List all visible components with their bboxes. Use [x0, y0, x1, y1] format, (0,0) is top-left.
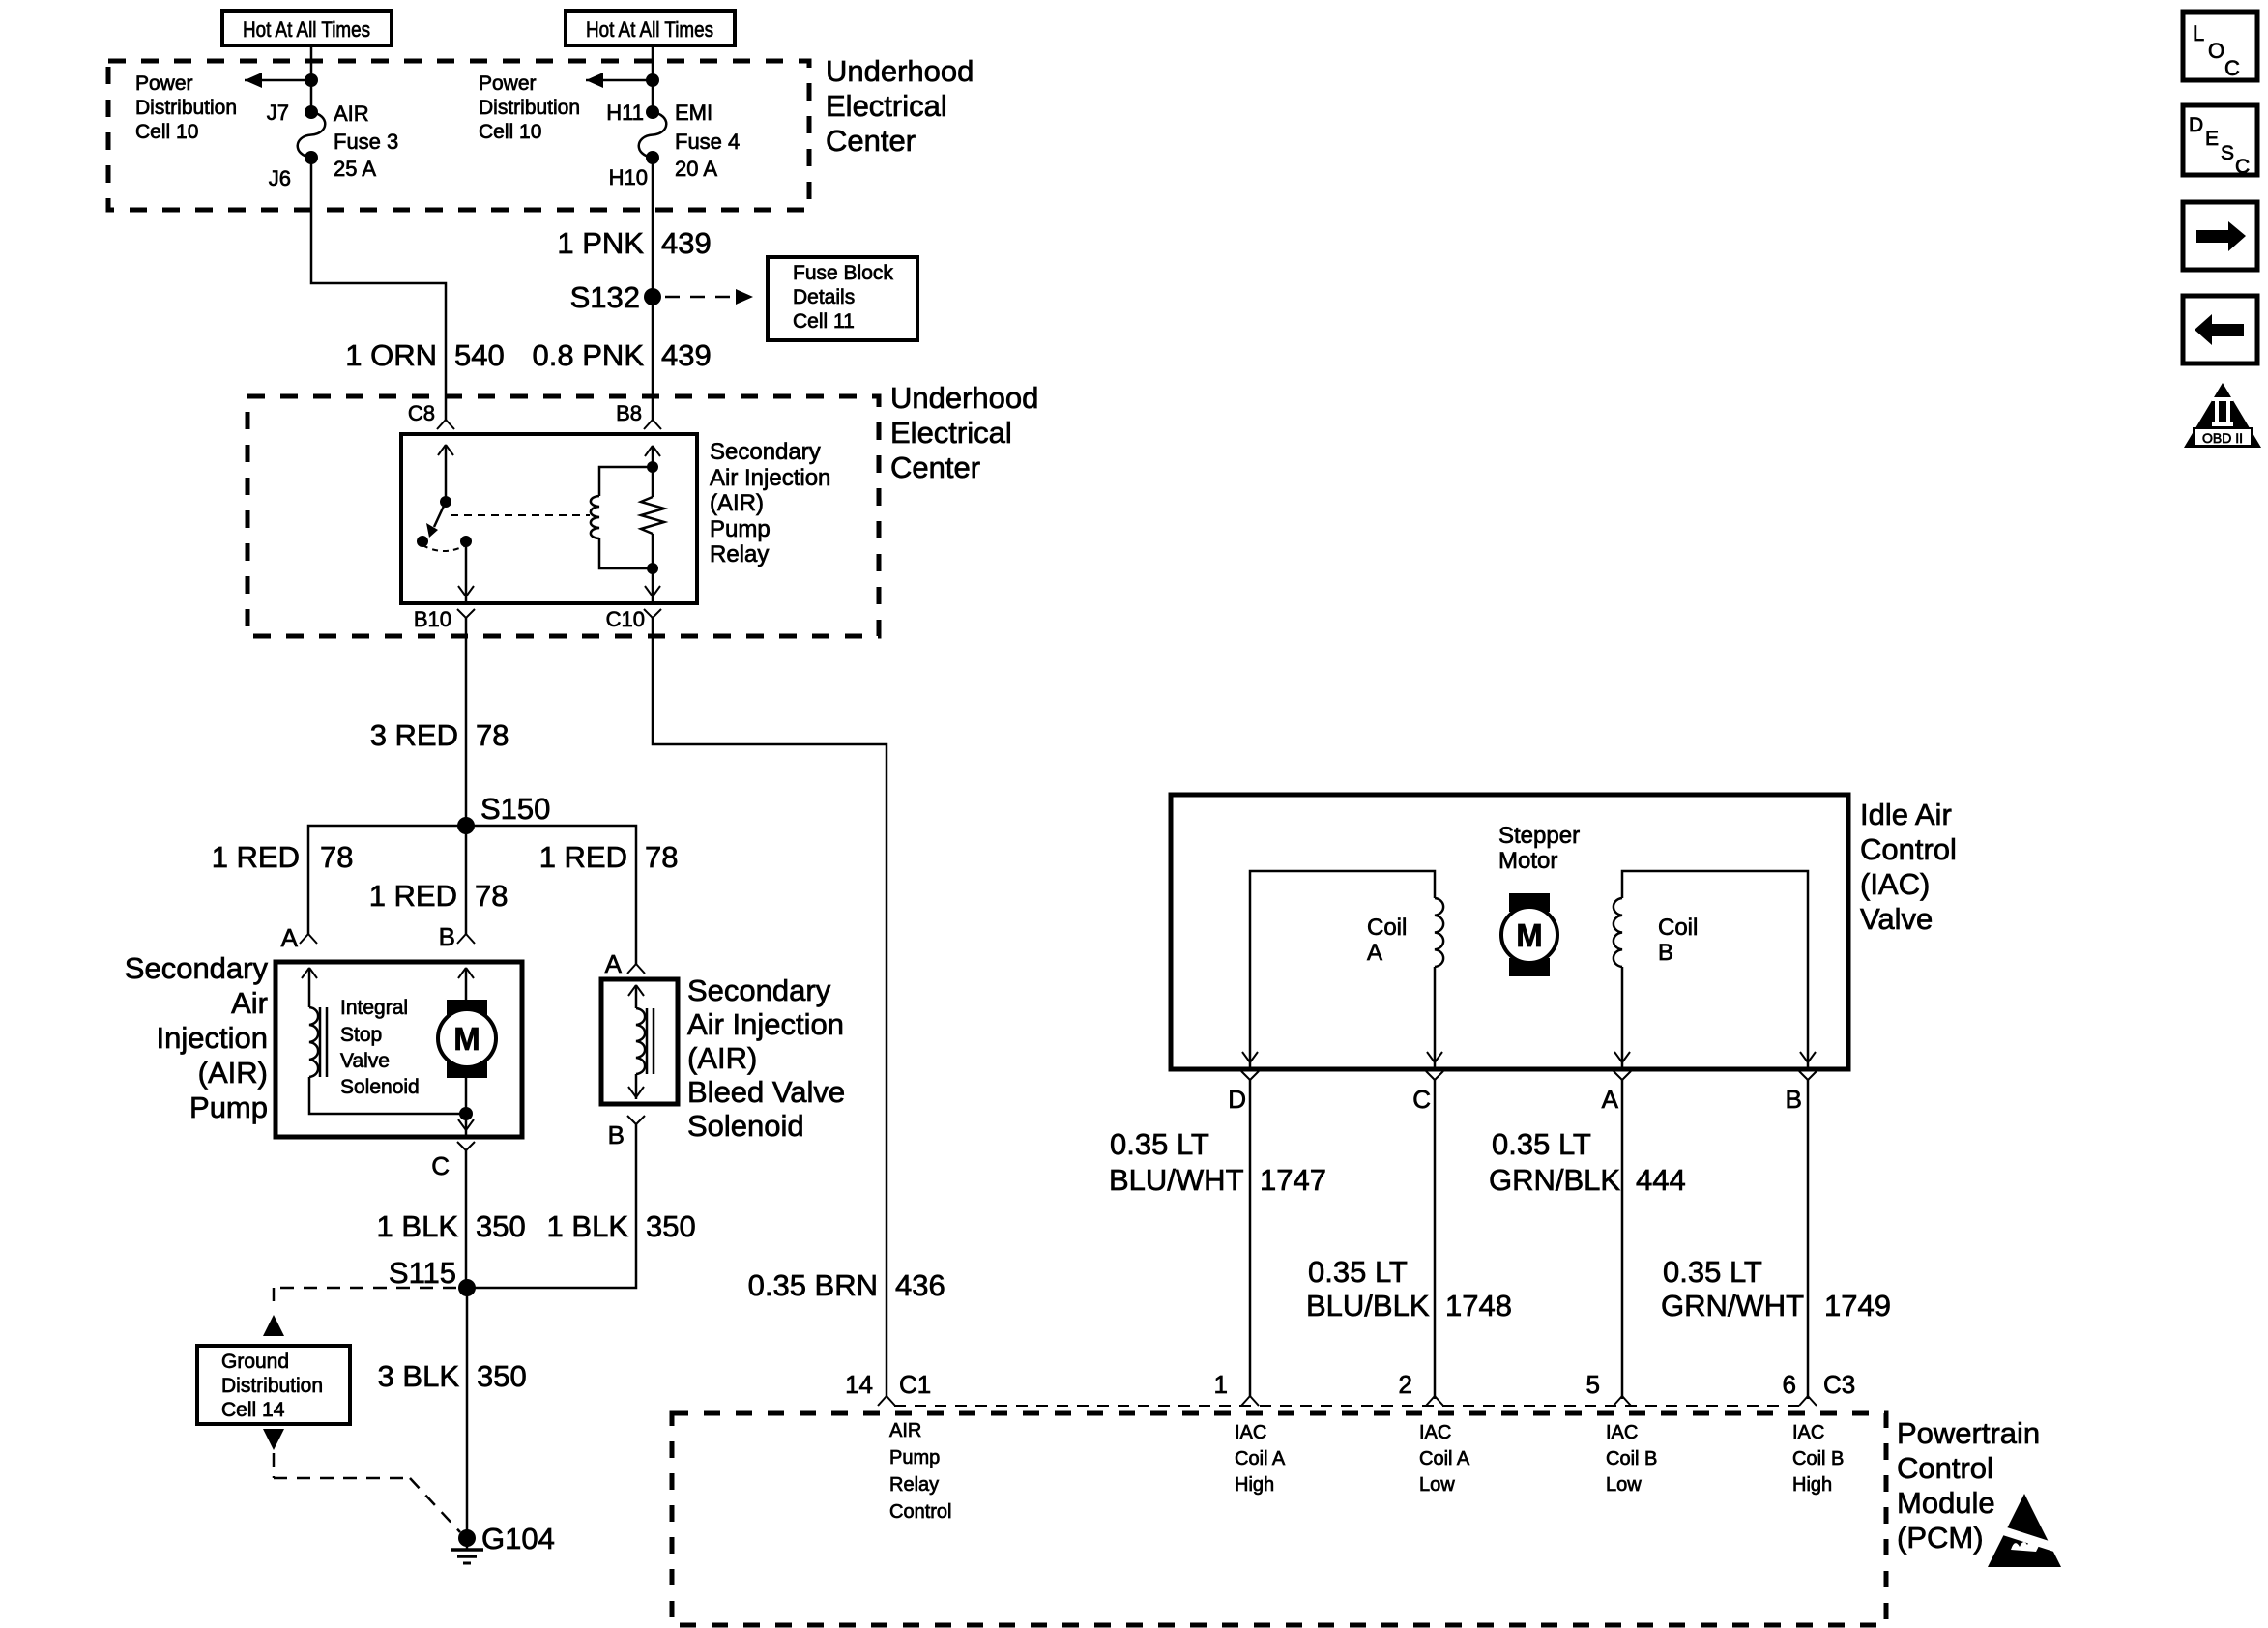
fuse F3 terminal J6: [305, 151, 318, 164]
terminal C10 connector: [606, 607, 661, 631]
label: wire 1 BLK 350 (left): [377, 1209, 526, 1243]
svg-text:G104: G104: [481, 1522, 555, 1555]
svg-text:Low: Low: [1419, 1474, 1455, 1496]
svg-text:S115: S115: [389, 1256, 456, 1290]
svg-text:Air: Air: [231, 986, 268, 1020]
svg-text:BLU/BLK: BLU/BLK: [1306, 1289, 1430, 1323]
bleed valve solenoid box: [601, 979, 678, 1104]
wire: motor to pump pin C: [465, 1078, 468, 1114]
svg-text:3 BLK: 3 BLK: [378, 1359, 460, 1393]
relay coil top junction: [647, 461, 658, 473]
label: wire 0.35 BRN 436: [748, 1268, 945, 1302]
pin 5 connector: [1586, 1370, 1631, 1406]
label: Integral Stop Valve Solenoid: [340, 997, 420, 1098]
pump motor leg from B: [458, 968, 474, 1000]
wire: pump C to S115 (1 BLK 350): [465, 1150, 468, 1288]
svg-text:GRN/BLK: GRN/BLK: [1489, 1163, 1620, 1197]
label: wire 3 RED 78: [370, 718, 509, 752]
wire: bleed B to S115 (1 BLK 350): [467, 1124, 636, 1288]
junction: pump internal ground node: [459, 1107, 473, 1120]
svg-text:C: C: [2224, 56, 2240, 80]
svg-text:540: 540: [454, 338, 505, 372]
svg-text:Idle Air: Idle Air: [1860, 798, 1952, 831]
label: Secondary Air Injection (AIR) Pump: [125, 951, 269, 1124]
dashed box: Underhood Electrical Center (fuse block): [108, 61, 809, 210]
svg-text:Underhood: Underhood: [890, 381, 1038, 415]
relay coil branch wire: [599, 467, 653, 568]
terminal B connector (pump): [439, 922, 475, 951]
svg-text:1 RED: 1 RED: [212, 840, 300, 874]
svg-text:439: 439: [661, 338, 712, 372]
svg-text:D: D: [2189, 114, 2203, 136]
svg-text:0.8 PNK: 0.8 PNK: [533, 338, 645, 372]
wire: junction to pump C: [458, 1114, 474, 1137]
pin label: IAC Coil B High: [1792, 1422, 1844, 1496]
label: wire 0.35 LT BLU/BLK 1748: [1306, 1255, 1512, 1323]
reference arrow up (ground distribution): [263, 1315, 284, 1336]
inductor: IAC Coil B: [1614, 898, 1622, 967]
svg-text:OBD II: OBD II: [2202, 430, 2243, 446]
label: Secondary Air Injection (AIR) Pump Relay: [710, 439, 830, 567]
pin label: IAC Coil B Low: [1606, 1422, 1657, 1496]
icon: back arrow: [2183, 296, 2257, 363]
label: Powertrain Control Module (PCM): [1897, 1416, 2040, 1555]
svg-text:IAC: IAC: [1792, 1422, 1824, 1443]
svg-text:78: 78: [476, 718, 509, 752]
relay resistor R1: [641, 446, 664, 568]
ground G104: [451, 1522, 555, 1563]
svg-text:350: 350: [476, 1209, 526, 1243]
svg-text:Fuse Block: Fuse Block: [793, 262, 893, 284]
svg-text:(AIR): (AIR): [710, 490, 764, 516]
svg-text:Center: Center: [826, 124, 916, 158]
wire: S115 to G104 (3 BLK 350): [466, 1288, 469, 1538]
svg-text:Center: Center: [890, 451, 980, 484]
svg-text:(AIR): (AIR): [687, 1041, 757, 1075]
wire: S150 to AIR pump pin A (1 RED 78): [308, 826, 466, 934]
svg-text:0.35 LT: 0.35 LT: [1308, 1255, 1408, 1289]
svg-text:0.35 BRN: 0.35 BRN: [748, 1268, 878, 1302]
IAC coil B loop wire: [1614, 871, 1816, 1069]
svg-text:Secondary: Secondary: [687, 974, 831, 1007]
svg-text:M: M: [453, 1021, 480, 1057]
bleed solenoid leg to B: [628, 1074, 644, 1099]
svg-text:EMI: EMI: [675, 101, 712, 125]
label: Underhood Electrical Center (top): [826, 54, 974, 158]
svg-text:1: 1: [1214, 1370, 1228, 1399]
svg-text:IAC: IAC: [1606, 1422, 1638, 1443]
svg-text:Solenoid: Solenoid: [687, 1109, 804, 1143]
svg-text:Power: Power: [479, 73, 537, 95]
svg-text:L: L: [2193, 21, 2204, 45]
connector box: Hot At All Times (left feed): [222, 11, 392, 45]
svg-text:1748: 1748: [1445, 1289, 1512, 1323]
relay coil L1: [591, 496, 599, 538]
svg-text:1749: 1749: [1824, 1289, 1891, 1323]
stepper motor M2: [1501, 893, 1557, 976]
icon: forward arrow: [2183, 202, 2257, 270]
svg-text:E: E: [2205, 128, 2219, 150]
label: terminal H10: [609, 165, 648, 189]
svg-text:1 RED: 1 RED: [539, 840, 627, 874]
label: wire 0.35 LT GRN/BLK 444: [1489, 1127, 1686, 1197]
svg-text:A: A: [1602, 1085, 1619, 1114]
label: Underhood Electrical Center (relay): [890, 381, 1038, 484]
svg-text:1 BLK: 1 BLK: [377, 1209, 459, 1243]
wire: IAC C to PCM pin 2 (0.35 LT BLU/BLK 1748): [1434, 1080, 1437, 1399]
label: Idle Air Control (IAC) Valve: [1860, 798, 1957, 936]
svg-text:A: A: [281, 923, 299, 952]
svg-text:Module: Module: [1897, 1486, 1995, 1520]
relay switch NC contact: [417, 536, 428, 547]
svg-text:S150: S150: [480, 792, 550, 826]
label: wire 1 RED 78 (middle): [369, 879, 509, 913]
svg-text:78: 78: [645, 840, 678, 874]
terminal C8 connector: [408, 401, 454, 429]
wire: fuse H10 to S132 (1 PNK 439): [652, 158, 654, 297]
wire: IAC D to PCM pin 1 (0.35 LT BLU/WHT 1747): [1249, 1080, 1252, 1396]
relay switch output leg to B10: [458, 541, 474, 603]
terminal A connector (IAC): [1602, 1071, 1631, 1114]
terminal B10 connector: [414, 607, 475, 631]
svg-text:H10: H10: [609, 165, 648, 189]
svg-text:Distribution: Distribution: [135, 97, 237, 119]
wire: IAC B to PCM pin 6 (0.35 LT GRN/WHT 1749): [1807, 1080, 1810, 1399]
svg-text:A: A: [605, 949, 623, 978]
svg-text:Motor: Motor: [1498, 848, 1557, 874]
label: terminal J7: [267, 101, 289, 125]
terminal C connector (IAC): [1412, 1071, 1443, 1114]
svg-text:78: 78: [475, 879, 508, 913]
fuse F4 terminal H11: [646, 105, 659, 119]
relay switch pivot: [440, 496, 451, 508]
svg-text:Stepper: Stepper: [1498, 823, 1580, 849]
wire: right feed into fuse block: [652, 45, 654, 112]
label: EMI Fuse 4 20 A: [675, 101, 740, 181]
fuse F3: AIR Fuse 3 25 A: [298, 112, 326, 158]
svg-text:25 A: 25 A: [334, 157, 376, 181]
svg-text:0.35 LT: 0.35 LT: [1492, 1127, 1591, 1161]
svg-text:Valve: Valve: [1860, 902, 1933, 936]
pin 2 connector: [1399, 1370, 1443, 1406]
svg-text:Secondary: Secondary: [125, 951, 269, 985]
reference arrow down (ground distribution): [263, 1429, 284, 1450]
svg-text:Cell 11: Cell 11: [793, 310, 855, 333]
reference box: Fuse Block Details Cell 11: [768, 257, 917, 340]
svg-text:Secondary: Secondary: [710, 439, 821, 465]
svg-text:350: 350: [477, 1359, 527, 1393]
svg-text:Ground: Ground: [221, 1351, 289, 1373]
label: terminal J6: [269, 166, 291, 190]
svg-text:IAC: IAC: [1235, 1422, 1266, 1443]
label: Stepper Motor: [1498, 823, 1580, 874]
svg-text:B8: B8: [616, 401, 642, 425]
svg-text:A: A: [1367, 940, 1382, 966]
IAC valve box: [1171, 795, 1848, 1069]
svg-text:Control: Control: [1860, 832, 1957, 866]
terminal B connector (bleed valve): [608, 1116, 645, 1149]
svg-text:(IAC): (IAC): [1860, 867, 1930, 901]
svg-text:AIR: AIR: [889, 1420, 921, 1441]
svg-text:D: D: [1228, 1085, 1246, 1114]
svg-text:C3: C3: [1823, 1370, 1855, 1399]
wire: S150 to AIR pump pin B (1 RED 78): [465, 826, 468, 934]
svg-text:B: B: [439, 922, 455, 951]
pin label: IAC Coil A High: [1235, 1422, 1286, 1496]
label: terminal H11: [606, 101, 644, 125]
svg-text:1 ORN: 1 ORN: [345, 338, 437, 372]
fuse F3 terminal J7: [305, 105, 318, 119]
relay switch throw arc (dashed): [422, 545, 466, 551]
svg-text:3 RED: 3 RED: [370, 718, 458, 752]
svg-text:Coil: Coil: [1367, 915, 1407, 941]
svg-text:20 A: 20 A: [675, 157, 717, 181]
svg-text:Coil A: Coil A: [1235, 1448, 1286, 1469]
svg-text:Relay: Relay: [889, 1474, 939, 1496]
splice S115: [389, 1256, 476, 1296]
relay coil leg to C10: [645, 568, 660, 603]
svg-text:High: High: [1792, 1474, 1832, 1496]
svg-text:Coil A: Coil A: [1419, 1448, 1470, 1469]
relay actuation link (dashed): [451, 514, 590, 516]
label: wire 0.8 PNK 439: [533, 338, 712, 372]
relay coil bottom junction: [647, 563, 658, 574]
PCM connector row (thin dashed): [894, 1405, 1800, 1407]
svg-text:Cell 10: Cell 10: [479, 121, 541, 143]
pin 1 connector: [1214, 1370, 1259, 1406]
pump solenoid leg from A: [302, 968, 317, 1007]
svg-text:Coil: Coil: [1658, 915, 1698, 941]
wire: IAC A to PCM pin 5 (0.35 LT GRN/BLK 444): [1621, 1080, 1624, 1399]
svg-text:1 PNK: 1 PNK: [557, 226, 644, 260]
pin label: AIR Pump Relay Control: [889, 1420, 951, 1523]
svg-text:GRN/WHT: GRN/WHT: [1661, 1289, 1804, 1323]
svg-text:2: 2: [1399, 1370, 1412, 1399]
AIR pump box: [276, 962, 522, 1137]
svg-text:Coil B: Coil B: [1606, 1448, 1657, 1469]
reference box: Ground Distribution Cell 14: [197, 1346, 350, 1424]
label: wire 1 ORN 540: [345, 338, 504, 372]
label: Coil B: [1658, 915, 1698, 966]
wire: relay B10 to S150 (3 RED 78): [465, 618, 468, 826]
terminal A connector (pump): [281, 923, 317, 952]
label: wire 0.35 LT BLU/WHT 1747: [1109, 1127, 1326, 1197]
svg-text:Cell 14: Cell 14: [221, 1399, 285, 1421]
bleed solenoid leg from A: [628, 985, 644, 1008]
svg-text:J7: J7: [267, 101, 289, 125]
svg-text:439: 439: [661, 226, 712, 260]
ESD sensitivity symbol: [1984, 1494, 2065, 1567]
svg-text:436: 436: [895, 1268, 945, 1302]
svg-text:Low: Low: [1606, 1474, 1642, 1496]
svg-text:B10: B10: [414, 607, 451, 631]
label: AIR Fuse 3 25 A: [334, 102, 398, 181]
label: wire 1 RED 78 (right): [539, 840, 679, 874]
relay K: Secondary Air Injection (AIR) Pump Relay box: [401, 434, 697, 603]
svg-text:C: C: [2235, 156, 2250, 178]
svg-text:Injection: Injection: [157, 1021, 268, 1055]
svg-text:Valve: Valve: [340, 1050, 390, 1072]
svg-text:IAC: IAC: [1419, 1422, 1451, 1443]
svg-text:444: 444: [1636, 1163, 1686, 1197]
svg-text:High: High: [1235, 1474, 1274, 1496]
label: wire 1 BLK 350 (right): [547, 1209, 696, 1243]
label: Coil A: [1367, 915, 1407, 966]
inductor: IAC Coil A: [1435, 898, 1443, 967]
motor M1 (pump): [438, 1000, 496, 1078]
svg-text:(AIR): (AIR): [198, 1056, 268, 1090]
reference path: Ground Distribution to G104 (dashed): [274, 1453, 460, 1532]
icon: OBD II: [2184, 383, 2261, 448]
label: wire 0.35 LT GRN/WHT 1749: [1661, 1255, 1891, 1323]
svg-text:14: 14: [845, 1370, 873, 1399]
PCM box (dashed): Powertrain Control Module: [672, 1413, 1886, 1625]
svg-text:0.35 LT: 0.35 LT: [1663, 1255, 1762, 1289]
svg-text:Control: Control: [1897, 1451, 1993, 1485]
svg-text:M: M: [1516, 917, 1543, 953]
IAC coil A loop wire: [1242, 871, 1442, 1069]
svg-text:78: 78: [320, 840, 353, 874]
svg-text:Electrical: Electrical: [826, 89, 947, 123]
svg-text:C: C: [1412, 1085, 1431, 1114]
splice S150: [457, 792, 550, 834]
svg-text:B: B: [1786, 1085, 1802, 1114]
svg-text:5: 5: [1586, 1370, 1600, 1399]
solenoid L3: bleed valve coil: [636, 1008, 654, 1074]
svg-text:Air Injection: Air Injection: [687, 1007, 844, 1041]
svg-text:J6: J6: [269, 166, 291, 190]
svg-text:Integral: Integral: [340, 997, 408, 1019]
dashed box: Underhood Electrical Center (relay): [247, 396, 879, 636]
svg-text:Pump: Pump: [189, 1090, 268, 1124]
svg-text:350: 350: [646, 1209, 696, 1243]
svg-text:Distribution: Distribution: [479, 97, 580, 119]
wire: left feed into fuse block: [310, 45, 313, 112]
splice S132: [570, 280, 661, 314]
label: Power Distribution Cell 10 (right): [479, 73, 580, 143]
icon: LOC: [2183, 12, 2257, 80]
svg-text:Bleed Valve: Bleed Valve: [687, 1075, 845, 1109]
svg-text:Fuse 4: Fuse 4: [675, 130, 740, 154]
svg-text:B: B: [1658, 940, 1673, 966]
relay switch NO contact: [460, 536, 472, 547]
wire: fuse J6 to relay pin C8 (1 ORN 540): [311, 158, 446, 420]
svg-text:Hot At All Times: Hot At All Times: [586, 17, 713, 42]
relay switch arm (movable contact): [426, 502, 446, 538]
svg-text:Electrical: Electrical: [890, 416, 1012, 450]
svg-text:0.35 LT: 0.35 LT: [1110, 1127, 1209, 1161]
svg-text:Power: Power: [135, 73, 193, 95]
icon: DESC: [2183, 105, 2257, 178]
svg-text:H11: H11: [606, 101, 644, 125]
svg-text:S132: S132: [570, 280, 640, 314]
wire: solenoid bottom to motor junction: [309, 1077, 466, 1114]
label: Secondary Air Injection (AIR) Bleed Valve Solenoid: [687, 974, 845, 1143]
svg-text:AIR: AIR: [334, 102, 369, 126]
svg-text:1 BLK: 1 BLK: [547, 1209, 629, 1243]
svg-text:1747: 1747: [1260, 1163, 1326, 1197]
junction: left feed tap: [305, 73, 318, 87]
svg-text:1 RED: 1 RED: [369, 879, 457, 913]
svg-text:C: C: [431, 1151, 450, 1180]
svg-text:S: S: [2221, 142, 2234, 164]
label: Power Distribution Cell 10 (left): [135, 73, 237, 143]
arrow: to Power Distribution (right): [586, 73, 653, 88]
pin 14 connector C1: [845, 1370, 931, 1406]
svg-text:Cell 10: Cell 10: [135, 121, 198, 143]
svg-text:Fuse 3: Fuse 3: [334, 130, 398, 154]
svg-text:Hot At All Times: Hot At All Times: [243, 17, 370, 42]
pin 6 connector C3: [1783, 1370, 1856, 1406]
svg-text:Relay: Relay: [710, 541, 769, 567]
terminal D connector (IAC): [1228, 1071, 1259, 1114]
svg-text:C8: C8: [408, 401, 435, 425]
label: wire 1 RED 78 (left): [212, 840, 354, 874]
svg-text:Distribution: Distribution: [221, 1375, 323, 1397]
relay switch common leg from C8: [438, 445, 453, 502]
svg-text:O: O: [2208, 39, 2224, 63]
fuse F4: EMI Fuse 4 20 A: [639, 112, 667, 158]
svg-text:BLU/WHT: BLU/WHT: [1109, 1163, 1244, 1197]
terminal B8 connector: [616, 401, 661, 429]
wire: relay C10 to PCM pin 14 (0.35 BRN 436): [653, 618, 887, 1396]
svg-text:Underhood: Underhood: [826, 54, 974, 88]
wire: S150 to bleed valve pin A (1 RED 78): [466, 826, 636, 964]
svg-text:Powertrain: Powertrain: [1897, 1416, 2040, 1450]
svg-text:Air Injection: Air Injection: [710, 465, 830, 491]
solenoid L2: Integral Stop Valve coil: [309, 1007, 327, 1077]
terminal B connector (IAC): [1786, 1071, 1817, 1114]
label: wire 1 PNK 439: [557, 226, 711, 260]
reference path: S115 to Ground Distribution (dashed): [274, 1288, 456, 1311]
svg-text:C1: C1: [899, 1370, 931, 1399]
fuse F4 terminal H10: [646, 151, 659, 164]
svg-text:Control: Control: [889, 1501, 951, 1523]
reference arrow: S132 to Fuse Block Details: [665, 289, 753, 305]
arrow: to Power Distribution (left): [245, 73, 311, 88]
svg-text:6: 6: [1783, 1370, 1796, 1399]
terminal C connector (pump): [431, 1142, 475, 1180]
svg-text:Stop: Stop: [340, 1024, 382, 1046]
svg-text:Pump: Pump: [710, 516, 771, 542]
svg-text:(PCM): (PCM): [1897, 1521, 1984, 1555]
svg-text:B: B: [608, 1120, 625, 1149]
svg-text:Details: Details: [793, 286, 855, 308]
junction: right feed tap: [646, 73, 659, 87]
connector box: Hot At All Times (right feed): [566, 11, 735, 45]
wire: S132 to relay pin B8 (0.8 PNK 439): [652, 297, 654, 420]
svg-text:Pump: Pump: [889, 1447, 940, 1468]
label: wire 3 BLK 350: [378, 1359, 527, 1393]
svg-text:Coil B: Coil B: [1792, 1448, 1844, 1469]
svg-text:Solenoid: Solenoid: [340, 1076, 420, 1098]
svg-text:C10: C10: [606, 607, 645, 631]
pin label: IAC Coil A Low: [1419, 1422, 1470, 1496]
terminal A connector (bleed valve): [605, 949, 645, 978]
